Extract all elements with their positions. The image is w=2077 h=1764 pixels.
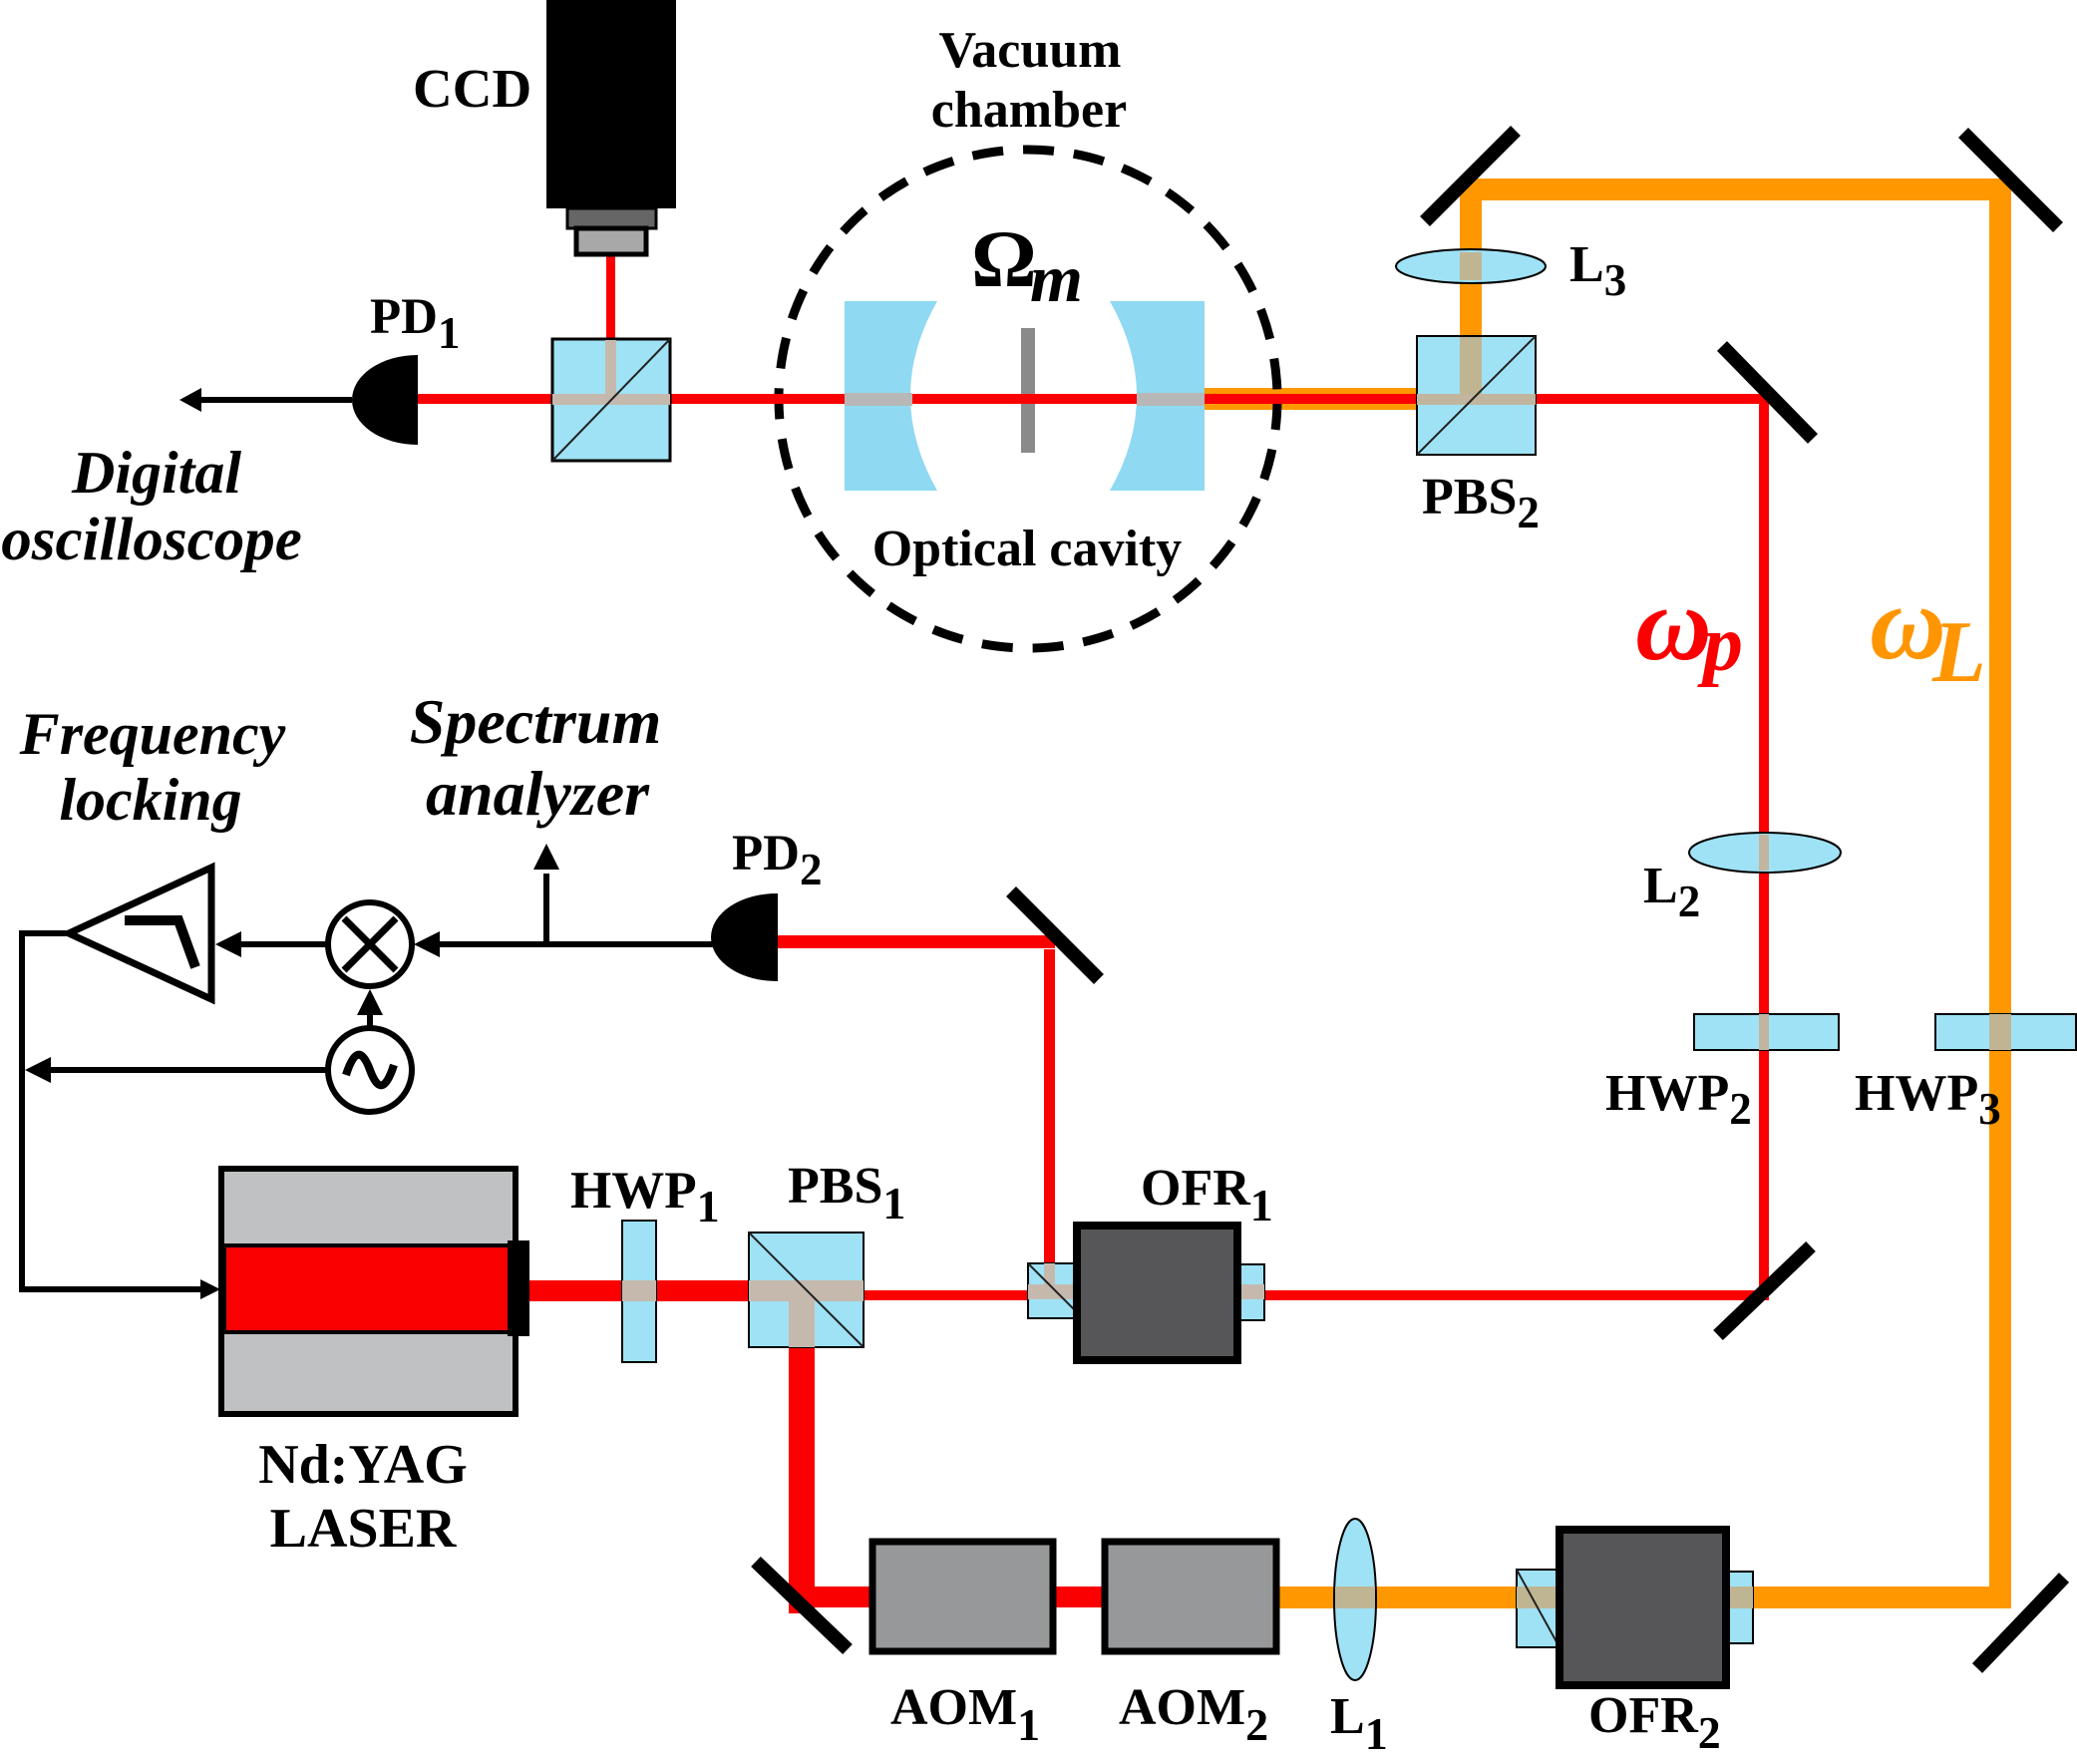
half-wave plate HWP2 [1694,1014,1839,1050]
arrow PD1 to digital oscilloscope [179,388,352,412]
cavity mirror left [845,301,937,491]
gray beam inside right cavity mirror [1137,393,1205,406]
beam red thick mirror M6 to AOM1 [790,1587,872,1607]
svg-text:ω: ω [1635,565,1712,682]
beam wL orange left vertical into PBS2 [1460,183,1482,338]
svg-text:locking: locking [59,767,241,833]
beam wL orange top horizontal [1460,178,2011,200]
half-wave plate HWP1 [622,1221,656,1362]
oscillator [328,1028,412,1112]
beam red PBS1 to OFR1 [864,1290,1028,1300]
svg-text:chamber: chamber [931,82,1127,139]
half-wave plate HWP3 [1935,1014,2076,1050]
beam wL orange right vertical [1989,183,2011,1608]
beam red PD1 to cube [414,394,552,404]
beam red horizontal OFR1 to mirror M4 [1264,1290,1769,1300]
lens L1 [1334,1519,1376,1680]
svg-text:Vacuum: Vacuum [938,22,1121,79]
beam red CCD to cube [606,254,615,339]
Nd:YAG laser [221,1169,529,1414]
vacuum chamber dashed circle [779,150,1277,648]
CCD camera [546,0,676,254]
mixer [328,902,412,986]
beam red thick laser to PBS1 [529,1280,749,1301]
svg-text:L: L [1931,604,1986,701]
wire spectrum analyzer branch [533,844,559,944]
wire oscillator to mixer [357,989,383,1030]
wire feedback to laser [19,1279,220,1299]
beam red vertical mirror M7 to OFR1 [1044,949,1055,1263]
svg-text:Ω: Ω [971,213,1037,304]
svg-text:analyzer: analyzer [426,758,650,829]
beam red vertical wp [1759,394,1769,1300]
wire triangle apex to vertical [19,930,72,936]
mirror M1 top left of orange path [1425,131,1516,221]
svg-text:Spectrum: Spectrum [410,686,661,757]
mirror M6 bottom left of AOM1 [756,1562,848,1649]
wire feedback vertical [19,933,25,1289]
AOM1 [872,1542,1053,1651]
beam combined orange cavity to PBS2 [1205,388,1417,410]
beam red inside cavity over membrane [912,394,1137,404]
svg-text:Digital: Digital [71,440,241,506]
optical faraday rotator OFR1 [1028,1226,1264,1360]
PBS1 cube [749,1233,864,1347]
beamsplitter cube BS1 near CCD [552,339,670,461]
svg-text:CCD: CCD [413,58,531,119]
beam wL orange AOM2 to OFR2 [1276,1587,1517,1608]
wire mixer to amplifier [215,931,330,957]
svg-text:Frequency: Frequency [19,701,286,767]
beam wL orange bottom from OFR2 to corner [1753,1587,2002,1608]
svg-text:LASER: LASER [270,1498,457,1560]
amplifier triangle frequency locking [69,868,211,999]
wire PD2 to mixer [414,931,714,957]
mirror M4 red corner middle right [1718,1246,1811,1335]
gray beam inside left cavity mirror [845,393,912,406]
optical faraday rotator OFR2 [1517,1530,1753,1685]
beam red overlay cavity to PBS2 [1205,394,1417,404]
mirror M3 right of PBS2 [1722,346,1813,439]
cavity mirror right [1110,301,1205,491]
wire oscillator to feedback line [25,1057,330,1083]
lens L3 [1396,249,1546,283]
beam red PBS2 to mirror M3 [1536,394,1769,404]
lens L2 [1689,833,1841,873]
photodetector PD1 [352,355,418,445]
AOM2 [1105,1542,1276,1651]
mirror M2 top right [1963,133,2058,227]
beam red thick AOM1 to AOM2 [1053,1587,1105,1607]
beam red cube to cavity [670,394,845,404]
mirror M5 orange corner bottom right [1977,1578,2064,1668]
beam red thick PBS1 down [789,1347,815,1613]
mirror M7 near PD2 [1011,891,1099,979]
svg-text:p: p [1697,600,1743,688]
beam red PD2 horizontal [778,935,1055,948]
PBS2 cube [1417,336,1536,455]
svg-text:Optical cavity: Optical cavity [872,521,1183,577]
svg-text:oscilloscope: oscilloscope [1,507,302,573]
svg-text:Nd:YAG: Nd:YAG [258,1434,468,1496]
svg-text:m: m [1030,240,1083,316]
photodetector PD2 [711,893,778,981]
membrane [1021,328,1035,453]
